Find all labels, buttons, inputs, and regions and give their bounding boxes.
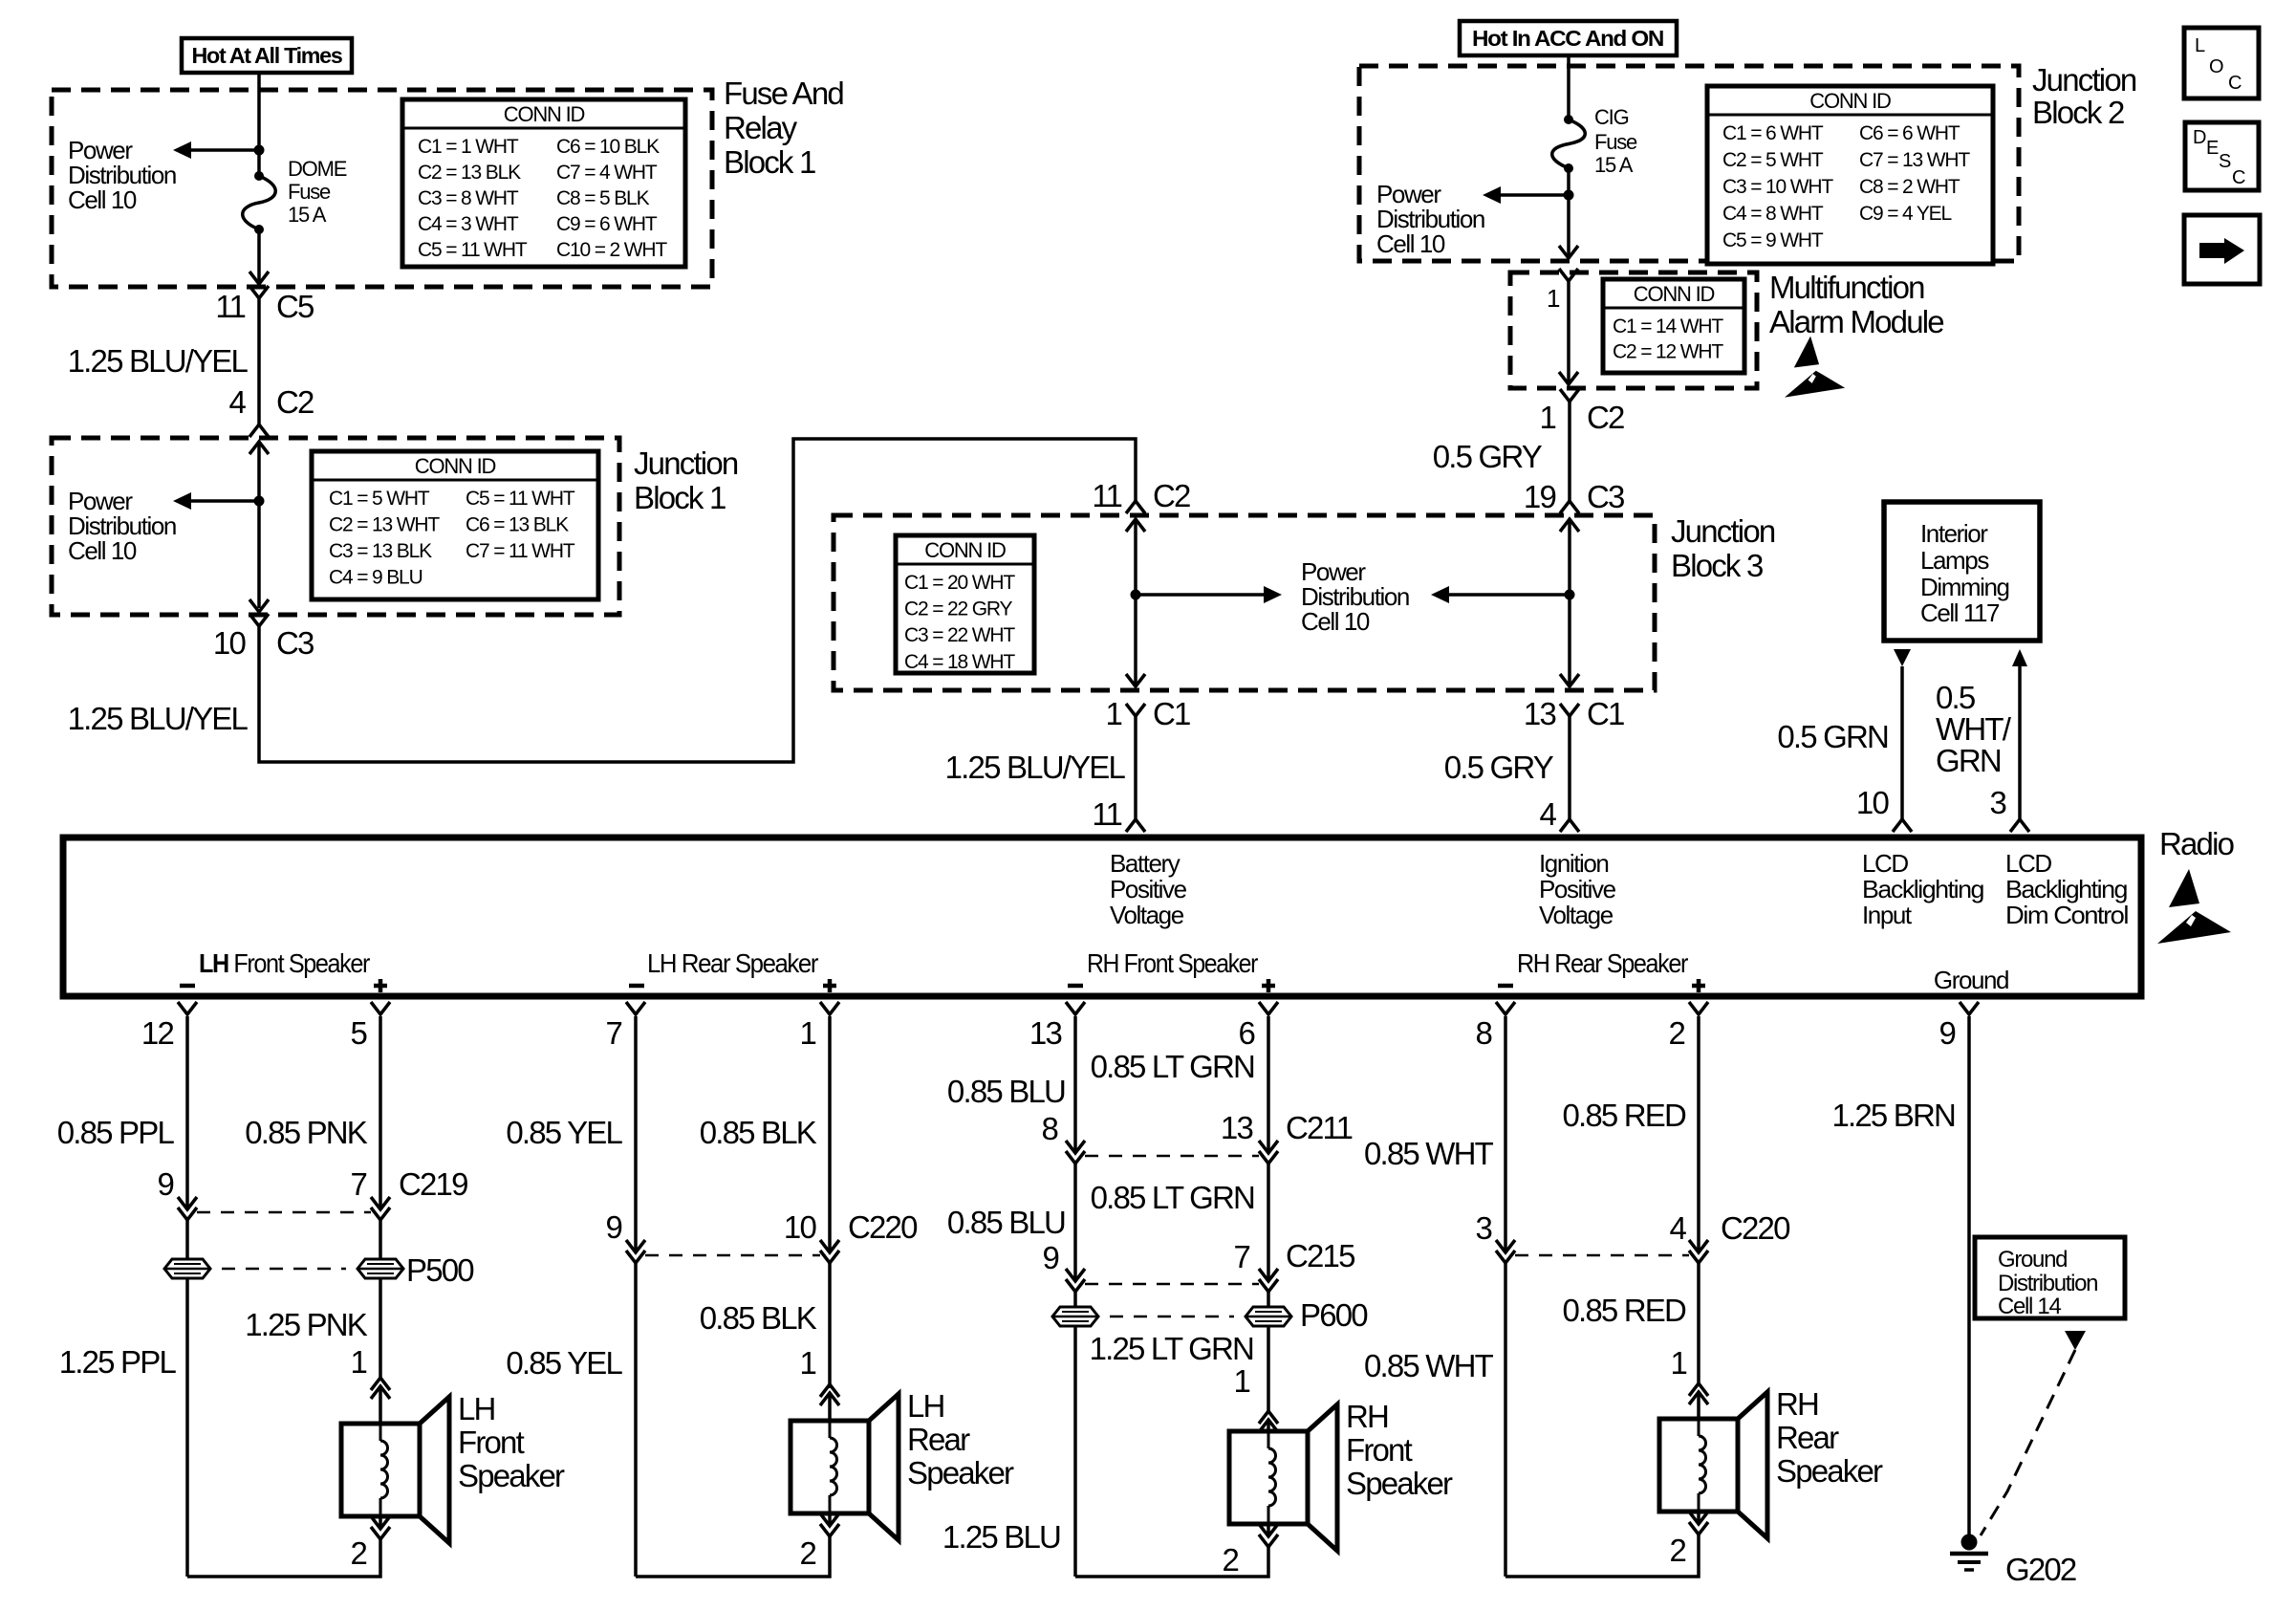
arrowhead into interior lamps (down) bbox=[1894, 649, 1911, 666]
connector C1 female battery bbox=[1126, 704, 1145, 716]
wire 1.25 BLU/YEL to junction block 1 bbox=[257, 298, 261, 424]
svg-text:C2 = 22 GRY: C2 = 22 GRY bbox=[904, 598, 1013, 620]
label Fuse And Relay Block 1 bbox=[724, 76, 843, 180]
wire 1.25 LT GRN bbox=[1267, 1292, 1270, 1411]
connector speaker out 2 bbox=[1689, 1522, 1708, 1534]
svg-text:Backlighting: Backlighting bbox=[2005, 875, 2127, 903]
svg-text:C220: C220 bbox=[1721, 1210, 1790, 1246]
svg-text:0.5: 0.5 bbox=[1936, 680, 1975, 715]
svg-text:C4 = 9 BLU: C4 = 9 BLU bbox=[329, 567, 422, 589]
wire out of RH front speaker bbox=[1267, 1524, 1270, 1536]
svg-text:GRN: GRN bbox=[1936, 743, 2001, 778]
label box Hot In ACC And ON bbox=[1460, 21, 1677, 55]
svg-text:C7 = 13 WHT: C7 = 13 WHT bbox=[1859, 149, 1970, 171]
svg-text:Rear: Rear bbox=[1776, 1420, 1839, 1455]
svg-text:1: 1 bbox=[799, 1345, 815, 1381]
connector C220 wire 7 halves bbox=[626, 1240, 645, 1252]
svg-text:Speaker: Speaker bbox=[458, 1458, 565, 1493]
svg-text:Cell 10: Cell 10 bbox=[68, 185, 137, 214]
svg-text:P600: P600 bbox=[1300, 1297, 1368, 1333]
svg-text:LH: LH bbox=[907, 1388, 944, 1424]
svg-text:C215: C215 bbox=[1286, 1238, 1354, 1273]
svg-text:Positive: Positive bbox=[1110, 875, 1187, 903]
svg-text:LCD: LCD bbox=[2005, 849, 2051, 878]
speaker RH front bbox=[1229, 1404, 1337, 1551]
wire 0.85 YEL lower bbox=[634, 1263, 638, 1577]
svg-text:0.5 GRY: 0.5 GRY bbox=[1444, 750, 1554, 785]
wire DOME fuse output bbox=[257, 229, 261, 281]
svg-text:0.85 BLU: 0.85 BLU bbox=[947, 1205, 1065, 1240]
wire 0.5 GRY to radio pin 4 bbox=[1568, 716, 1571, 819]
svg-text:RH: RH bbox=[1776, 1386, 1818, 1422]
connector speaker in 2 bbox=[1689, 1392, 1708, 1404]
connector speaker in 1 bbox=[371, 1378, 390, 1390]
label DOME Fuse 15 A bbox=[288, 157, 347, 227]
svg-text:C5: C5 bbox=[276, 289, 314, 324]
svg-text:Block 2: Block 2 bbox=[2032, 95, 2124, 130]
svg-text:Backlighting: Backlighting bbox=[1862, 875, 1983, 903]
polarity plus bbox=[1262, 984, 1275, 989]
label Ignition Positive Voltage bbox=[1539, 849, 1616, 929]
wire 1.25 BLU/YEL routed to junction block 3 bbox=[259, 439, 1136, 762]
connector C2 male into JB3 bbox=[1126, 501, 1145, 513]
svg-text:10: 10 bbox=[213, 625, 247, 661]
connector speaker out 1 bbox=[371, 1516, 390, 1529]
svg-text:6: 6 bbox=[1238, 1015, 1254, 1051]
svg-text:Alarm Module: Alarm Module bbox=[1769, 304, 1943, 339]
svg-text:O: O bbox=[2209, 56, 2223, 77]
label box Hot At All Times bbox=[182, 38, 352, 73]
svg-text:Block 3: Block 3 bbox=[1671, 548, 1763, 583]
svg-text:Cell 10: Cell 10 bbox=[1376, 229, 1445, 258]
svg-text:8: 8 bbox=[1041, 1111, 1057, 1146]
svg-text:1.25 BLU/YEL: 1.25 BLU/YEL bbox=[945, 750, 1126, 785]
connector C215 wire halves right bbox=[1259, 1269, 1278, 1281]
svg-text:Positive: Positive bbox=[1539, 875, 1616, 903]
pass-through P500 left bbox=[164, 1259, 210, 1278]
svg-text:0.5 GRN: 0.5 GRN bbox=[1777, 719, 1888, 754]
svg-text:13: 13 bbox=[1524, 696, 1556, 731]
ESD symbol alarm module bbox=[1785, 337, 1845, 398]
label LCD Backlighting Dim Control bbox=[2005, 849, 2129, 929]
svg-text:0.85 BLK: 0.85 BLK bbox=[700, 1115, 817, 1150]
svg-text:C220: C220 bbox=[848, 1209, 918, 1245]
svg-text:10: 10 bbox=[1856, 785, 1890, 820]
junction node fuse block feed bbox=[254, 145, 265, 156]
connector speaker out 1 bbox=[820, 1513, 839, 1526]
arrow to Power Distribution Cell 10 bbox=[1136, 593, 1268, 597]
svg-text:Junction: Junction bbox=[634, 446, 738, 481]
wire inside fuse block to DOME fuse bbox=[257, 92, 261, 176]
svg-text:CONN ID: CONN ID bbox=[924, 538, 1006, 562]
svg-text:2: 2 bbox=[1669, 1533, 1685, 1568]
polarity minus bbox=[180, 984, 195, 989]
next-page arrow box bbox=[2184, 215, 2260, 284]
label Multifunction Alarm Module bbox=[1769, 270, 1943, 339]
connector radio pin 6 bbox=[1259, 1002, 1278, 1014]
CONN ID table junction block 2 bbox=[1707, 86, 1993, 264]
svg-text:Rear: Rear bbox=[907, 1422, 970, 1457]
connector C3 female bbox=[249, 614, 269, 626]
svg-text:0.85 PNK: 0.85 PNK bbox=[245, 1115, 368, 1150]
LOC box bbox=[2184, 28, 2259, 98]
svg-text:C6 = 6 WHT: C6 = 6 WHT bbox=[1859, 122, 1960, 144]
label 0.5 WHT/ GRN bbox=[1936, 680, 2012, 778]
connector speaker out 1 bbox=[1259, 1524, 1278, 1536]
svg-text:P500: P500 bbox=[406, 1252, 474, 1288]
wire inside junction block 1 bbox=[257, 442, 261, 608]
arrow to Power Distribution Cell 10 bbox=[1444, 593, 1570, 597]
svg-text:Fuse: Fuse bbox=[288, 180, 331, 204]
svg-text:0.85 YEL: 0.85 YEL bbox=[506, 1345, 622, 1381]
connector radio pin 13 bbox=[1066, 1002, 1085, 1014]
connector speaker in 2 bbox=[371, 1386, 390, 1399]
svg-text:C1 = 14 WHT: C1 = 14 WHT bbox=[1613, 315, 1723, 337]
svg-text:E: E bbox=[2206, 138, 2219, 159]
svg-text:DOME: DOME bbox=[288, 157, 347, 181]
connector C5 female bbox=[249, 286, 269, 298]
svg-text:11: 11 bbox=[215, 289, 245, 324]
svg-text:Fuse: Fuse bbox=[1594, 130, 1637, 154]
wire inside alarm module bbox=[1567, 281, 1570, 381]
svg-text:WHT/: WHT/ bbox=[1936, 711, 2012, 747]
wire 0.5 GRN LCD backlighting input bbox=[1900, 666, 1904, 819]
svg-text:C10 = 2 WHT: C10 = 2 WHT bbox=[556, 239, 667, 261]
svg-text:11: 11 bbox=[1092, 796, 1121, 832]
connector radio pin 1 bbox=[820, 1002, 839, 1014]
component Interior Lamps Dimming Cell 117 bbox=[1884, 502, 2040, 641]
wire 0.85 BLU bbox=[1073, 1016, 1077, 1152]
dashed link to G202 bbox=[1981, 1350, 2075, 1535]
connector radio pin 5 bbox=[371, 1002, 390, 1014]
label Power Distribution Cell 10 (fuse block) bbox=[68, 136, 176, 214]
wire 1.25 PNK bbox=[379, 1220, 382, 1378]
label Junction Block 3 bbox=[1671, 513, 1775, 583]
wire out of RH rear speaker bbox=[1697, 1512, 1700, 1524]
svg-text:Cell 14: Cell 14 bbox=[1998, 1294, 2061, 1319]
wire 0.85 WHT lower bbox=[1504, 1263, 1507, 1577]
label LH Rear Speaker bbox=[907, 1388, 1014, 1490]
svg-text:CIG: CIG bbox=[1594, 105, 1629, 129]
svg-text:CONN ID: CONN ID bbox=[1809, 89, 1891, 113]
junction block 3 dashed box bbox=[834, 515, 1655, 690]
wire into LH front speaker bbox=[379, 1386, 382, 1424]
polarity plus bbox=[823, 984, 836, 989]
svg-text:15 A: 15 A bbox=[288, 203, 327, 227]
svg-text:C211: C211 bbox=[1286, 1110, 1353, 1145]
CONN ID table junction block 1 bbox=[312, 451, 598, 599]
svg-text:C7 = 4 WHT: C7 = 4 WHT bbox=[556, 162, 658, 184]
svg-text:C5 = 9 WHT: C5 = 9 WHT bbox=[1722, 229, 1824, 251]
svg-text:S: S bbox=[2219, 151, 2231, 172]
arrowhead battery wire out of JB3 bbox=[1126, 674, 1145, 686]
svg-text:Ignition: Ignition bbox=[1539, 849, 1608, 878]
svg-text:C2: C2 bbox=[1153, 478, 1190, 513]
CONN ID table alarm module bbox=[1603, 279, 1744, 373]
svg-text:RH Front Speaker: RH Front Speaker bbox=[1087, 948, 1258, 978]
connector radio pin 2 bbox=[1689, 1002, 1708, 1014]
svg-text:RH Rear Speaker: RH Rear Speaker bbox=[1517, 948, 1688, 978]
svg-text:0.85 WHT: 0.85 WHT bbox=[1364, 1348, 1494, 1383]
svg-text:Speaker: Speaker bbox=[1776, 1453, 1883, 1489]
CONN ID table fuse and relay block 1 bbox=[402, 99, 685, 267]
arrow to Power Distribution Cell 10 bbox=[186, 148, 259, 152]
connector speaker out 2 bbox=[371, 1527, 390, 1539]
svg-text:C3: C3 bbox=[1587, 479, 1624, 514]
wire speaker return LH rear bbox=[636, 1536, 830, 1577]
arrowhead out of alarm module bbox=[1559, 372, 1578, 384]
svg-text:C5 = 11 WHT: C5 = 11 WHT bbox=[418, 239, 528, 261]
svg-text:LH Front Speaker: LH Front Speaker bbox=[199, 948, 370, 978]
polarity minus bbox=[1498, 984, 1513, 989]
label Power Distribution Cell 10 (junction block 3) bbox=[1301, 557, 1409, 636]
arrowhead ground distribution (down) bbox=[2065, 1331, 2086, 1350]
svg-text:C1: C1 bbox=[1153, 696, 1190, 731]
svg-text:C8 = 5 BLK: C8 = 5 BLK bbox=[556, 187, 650, 209]
ground G202 bbox=[1950, 1534, 1988, 1571]
wire out of LH rear speaker bbox=[828, 1513, 832, 1526]
pass-through P600 right bbox=[1245, 1307, 1291, 1326]
svg-text:3: 3 bbox=[1475, 1210, 1491, 1246]
connector C2 female below alarm module bbox=[1560, 389, 1579, 402]
svg-text:13: 13 bbox=[1221, 1110, 1253, 1145]
svg-text:C6 = 10 BLK: C6 = 10 BLK bbox=[556, 136, 660, 158]
wire 0.85 PNK bbox=[379, 1016, 382, 1208]
svg-text:C3: C3 bbox=[276, 625, 314, 661]
svg-text:9: 9 bbox=[157, 1166, 173, 1202]
svg-text:C3 = 22 WHT: C3 = 22 WHT bbox=[904, 624, 1015, 646]
wire battery feed from Hot At All Times bbox=[257, 73, 261, 92]
wire 0.85 YEL bbox=[634, 1016, 638, 1251]
connector P500 line bbox=[222, 1268, 346, 1271]
svg-text:C3 = 8 WHT: C3 = 8 WHT bbox=[418, 187, 519, 209]
svg-text:1: 1 bbox=[1547, 284, 1560, 313]
wire speaker return RH front bbox=[1075, 1547, 1268, 1577]
wire 0.85 RED lower bbox=[1697, 1263, 1700, 1383]
svg-text:15 A: 15 A bbox=[1594, 153, 1634, 177]
connector C3 male into JB3 bbox=[1560, 501, 1579, 513]
label Power Distribution Cell 10 (junction block 2) bbox=[1376, 180, 1484, 258]
svg-text:0.85 BLK: 0.85 BLK bbox=[700, 1300, 817, 1336]
svg-text:LH: LH bbox=[458, 1391, 495, 1426]
connector radio pin 9 bbox=[1960, 1002, 1979, 1014]
svg-text:C1 = 6 WHT: C1 = 6 WHT bbox=[1722, 122, 1824, 144]
connector speaker in 1 bbox=[1259, 1411, 1278, 1424]
connector P600 line bbox=[1110, 1316, 1234, 1318]
junction block 1 dashed box bbox=[52, 438, 619, 615]
connector speaker out 2 bbox=[820, 1524, 839, 1536]
svg-text:9: 9 bbox=[1042, 1240, 1058, 1275]
polarity plus bbox=[374, 984, 387, 989]
polarity plus bbox=[1692, 984, 1705, 989]
connector C219 wire 5 halves bbox=[371, 1197, 390, 1209]
svg-text:C1 = 20 WHT: C1 = 20 WHT bbox=[904, 572, 1015, 594]
svg-text:G202: G202 bbox=[2005, 1552, 2076, 1587]
svg-text:C: C bbox=[2228, 73, 2242, 94]
svg-text:Speaker: Speaker bbox=[1346, 1466, 1453, 1501]
arrow to Power Distribution Cell 10 bbox=[1496, 193, 1569, 197]
wire CIG fuse output bbox=[1567, 168, 1570, 257]
arrowhead into interior lamps box (up) bbox=[2012, 649, 2027, 666]
svg-text:Relay: Relay bbox=[724, 110, 798, 145]
svg-text:Voltage: Voltage bbox=[1539, 901, 1614, 929]
svg-text:C2: C2 bbox=[1587, 400, 1624, 435]
label LH Front Speaker bbox=[458, 1391, 565, 1493]
svg-text:Junction: Junction bbox=[1671, 513, 1775, 549]
label RH Rear Speaker bbox=[1776, 1386, 1883, 1489]
svg-text:Block 1: Block 1 bbox=[724, 144, 815, 180]
svg-text:1: 1 bbox=[1539, 400, 1555, 435]
label Power Distribution Cell 10 (junction block 1) bbox=[68, 487, 176, 565]
svg-text:5: 5 bbox=[350, 1015, 366, 1051]
arrowhead out of junction block 1 bbox=[249, 599, 269, 612]
connector C219 line bbox=[197, 1211, 371, 1214]
fuse DOME 15 A bbox=[243, 171, 276, 234]
svg-text:C219: C219 bbox=[399, 1166, 467, 1202]
svg-text:RH: RH bbox=[1346, 1399, 1388, 1434]
svg-text:Lamps: Lamps bbox=[1920, 546, 1989, 575]
svg-text:C9 = 6 WHT: C9 = 6 WHT bbox=[556, 213, 658, 235]
wire 1.25 BLU/YEL to radio pin 11 bbox=[1134, 716, 1137, 819]
svg-text:1: 1 bbox=[350, 1344, 366, 1380]
wire 0.5 GRY to junction block 3 bbox=[1568, 402, 1571, 501]
svg-text:C2 = 5 WHT: C2 = 5 WHT bbox=[1722, 149, 1824, 171]
wire speaker return LH front bbox=[187, 1539, 380, 1577]
svg-text:2: 2 bbox=[799, 1535, 815, 1571]
junction node JB2 bbox=[1564, 190, 1574, 201]
wire 0.85 PPL bbox=[185, 1016, 189, 1208]
connector into alarm module bbox=[1559, 269, 1578, 281]
wire 0.5 WHT/GRN LCD dim control bbox=[2018, 666, 2022, 819]
connector C220 wire 2 halves bbox=[1689, 1240, 1708, 1252]
arrowhead ignition wire out of JB3 bbox=[1560, 674, 1579, 686]
svg-text:Front: Front bbox=[458, 1425, 525, 1460]
wire 0.85 BLK lower bbox=[828, 1263, 832, 1388]
svg-text:2: 2 bbox=[350, 1535, 366, 1571]
wire battery inside JB3 bbox=[1134, 519, 1137, 684]
connector C211 wire 6 halves bbox=[1259, 1141, 1278, 1153]
svg-text:C3 = 13 BLK: C3 = 13 BLK bbox=[329, 540, 432, 562]
svg-text:Distribution: Distribution bbox=[1998, 1271, 2097, 1296]
connector into radio battery bbox=[1126, 819, 1145, 832]
label Junction Block 2 bbox=[2032, 62, 2136, 130]
arrowhead out of fuse block bbox=[249, 272, 269, 284]
label Battery Positive Voltage bbox=[1110, 849, 1187, 929]
wire 1.25 PPL bbox=[185, 1220, 189, 1577]
svg-text:7: 7 bbox=[605, 1015, 621, 1051]
svg-text:1: 1 bbox=[1670, 1345, 1686, 1381]
svg-text:Dimming: Dimming bbox=[1920, 573, 2009, 601]
svg-text:Battery: Battery bbox=[1110, 849, 1180, 878]
svg-text:C6 = 13 BLK: C6 = 13 BLK bbox=[466, 514, 569, 536]
arrowhead battery wire into JB3 bbox=[1126, 519, 1145, 532]
svg-text:Hot In ACC And ON: Hot In ACC And ON bbox=[1472, 26, 1664, 51]
svg-text:1: 1 bbox=[1233, 1363, 1249, 1399]
svg-text:C2 = 12 WHT: C2 = 12 WHT bbox=[1613, 341, 1723, 363]
svg-text:C9 = 4 YEL: C9 = 4 YEL bbox=[1859, 203, 1952, 225]
svg-text:0.85 LT GRN: 0.85 LT GRN bbox=[1091, 1049, 1254, 1084]
component Radio bbox=[63, 838, 2141, 996]
label CIG Fuse 15 A bbox=[1594, 105, 1637, 177]
connector C220 wire 8 halves bbox=[1496, 1240, 1515, 1252]
connector into radio LCD input bbox=[1893, 819, 1912, 832]
speaker LH front bbox=[341, 1397, 449, 1543]
svg-text:C4 = 8 WHT: C4 = 8 WHT bbox=[1722, 203, 1824, 225]
svg-text:C7 = 11 WHT: C7 = 11 WHT bbox=[466, 540, 575, 562]
wire into LH rear speaker bbox=[828, 1393, 832, 1421]
polarity minus bbox=[629, 984, 644, 989]
wire 0.85 LT GRN bbox=[1267, 1016, 1270, 1152]
ESD symbol radio bbox=[2157, 869, 2231, 944]
svg-text:1: 1 bbox=[799, 1015, 815, 1051]
svg-text:0.85 RED: 0.85 RED bbox=[1562, 1293, 1686, 1328]
svg-text:C3 = 10 WHT: C3 = 10 WHT bbox=[1722, 176, 1833, 198]
svg-text:4: 4 bbox=[228, 384, 246, 420]
svg-text:7: 7 bbox=[1233, 1239, 1249, 1274]
wire 0.85 LT GRN mid bbox=[1267, 1164, 1270, 1281]
svg-text:1.25 BLU/YEL: 1.25 BLU/YEL bbox=[68, 701, 249, 736]
connector C220 line bbox=[645, 1254, 820, 1257]
junction node ignition JB3 bbox=[1565, 590, 1575, 600]
svg-text:LCD: LCD bbox=[1862, 849, 1908, 878]
component Ground Distribution Cell 14 bbox=[1975, 1237, 2125, 1319]
svg-text:8: 8 bbox=[1475, 1015, 1491, 1051]
svg-text:Voltage: Voltage bbox=[1110, 901, 1184, 929]
svg-text:Cell 117: Cell 117 bbox=[1920, 598, 2000, 627]
svg-text:7: 7 bbox=[350, 1166, 366, 1202]
fuse and relay block 1 dashed box bbox=[52, 90, 712, 287]
svg-text:0.5 GRY: 0.5 GRY bbox=[1433, 439, 1543, 474]
fuse CIG 15 A bbox=[1552, 115, 1586, 173]
polarity minus bbox=[1068, 984, 1083, 989]
arrowhead out of junction block 2 bbox=[1559, 246, 1578, 258]
wire 0.85 BLU mid bbox=[1073, 1164, 1077, 1281]
svg-text:C2 = 13 WHT: C2 = 13 WHT bbox=[329, 514, 440, 536]
svg-text:Radio: Radio bbox=[2159, 826, 2234, 861]
arrowhead into junction block 1 bbox=[249, 442, 269, 454]
svg-text:10: 10 bbox=[784, 1209, 817, 1245]
connector C220 wire 1 halves bbox=[820, 1240, 839, 1252]
svg-text:1.25 PNK: 1.25 PNK bbox=[245, 1307, 368, 1342]
svg-text:C5 = 11 WHT: C5 = 11 WHT bbox=[466, 488, 575, 510]
connector speaker out 2 bbox=[1259, 1534, 1278, 1547]
svg-text:4: 4 bbox=[1669, 1210, 1686, 1246]
connector C211 line bbox=[1085, 1155, 1259, 1158]
svg-text:CONN ID: CONN ID bbox=[1634, 282, 1715, 306]
CONN ID table junction block 3 bbox=[896, 535, 1034, 673]
svg-text:3: 3 bbox=[1989, 785, 2005, 820]
wire into RH rear speaker bbox=[1697, 1392, 1700, 1418]
pass-through P600 left bbox=[1052, 1307, 1098, 1326]
svg-text:Cell 10: Cell 10 bbox=[1301, 607, 1370, 636]
label RH Front Speaker bbox=[1346, 1399, 1453, 1501]
junction block 2 dashed box bbox=[1359, 66, 2019, 261]
svg-text:12: 12 bbox=[141, 1015, 174, 1051]
connector into radio LCD dim bbox=[2010, 819, 2029, 832]
svg-text:Block 1: Block 1 bbox=[634, 480, 726, 515]
svg-text:Hot At All Times: Hot At All Times bbox=[192, 43, 342, 68]
wire ignition inside JB3 bbox=[1568, 519, 1571, 684]
wire 1.25 BLU bbox=[1073, 1292, 1077, 1577]
svg-text:Cell 10: Cell 10 bbox=[68, 536, 137, 565]
svg-text:L: L bbox=[2195, 35, 2205, 56]
wire 0.85 BLK bbox=[828, 1016, 832, 1251]
svg-text:0.85 BLU: 0.85 BLU bbox=[947, 1074, 1065, 1109]
svg-text:1.25 BLU/YEL: 1.25 BLU/YEL bbox=[68, 343, 249, 379]
junction node JB1 bbox=[254, 496, 265, 507]
pass-through P500 right bbox=[357, 1259, 403, 1278]
multifunction alarm module dashed box bbox=[1510, 272, 1757, 388]
